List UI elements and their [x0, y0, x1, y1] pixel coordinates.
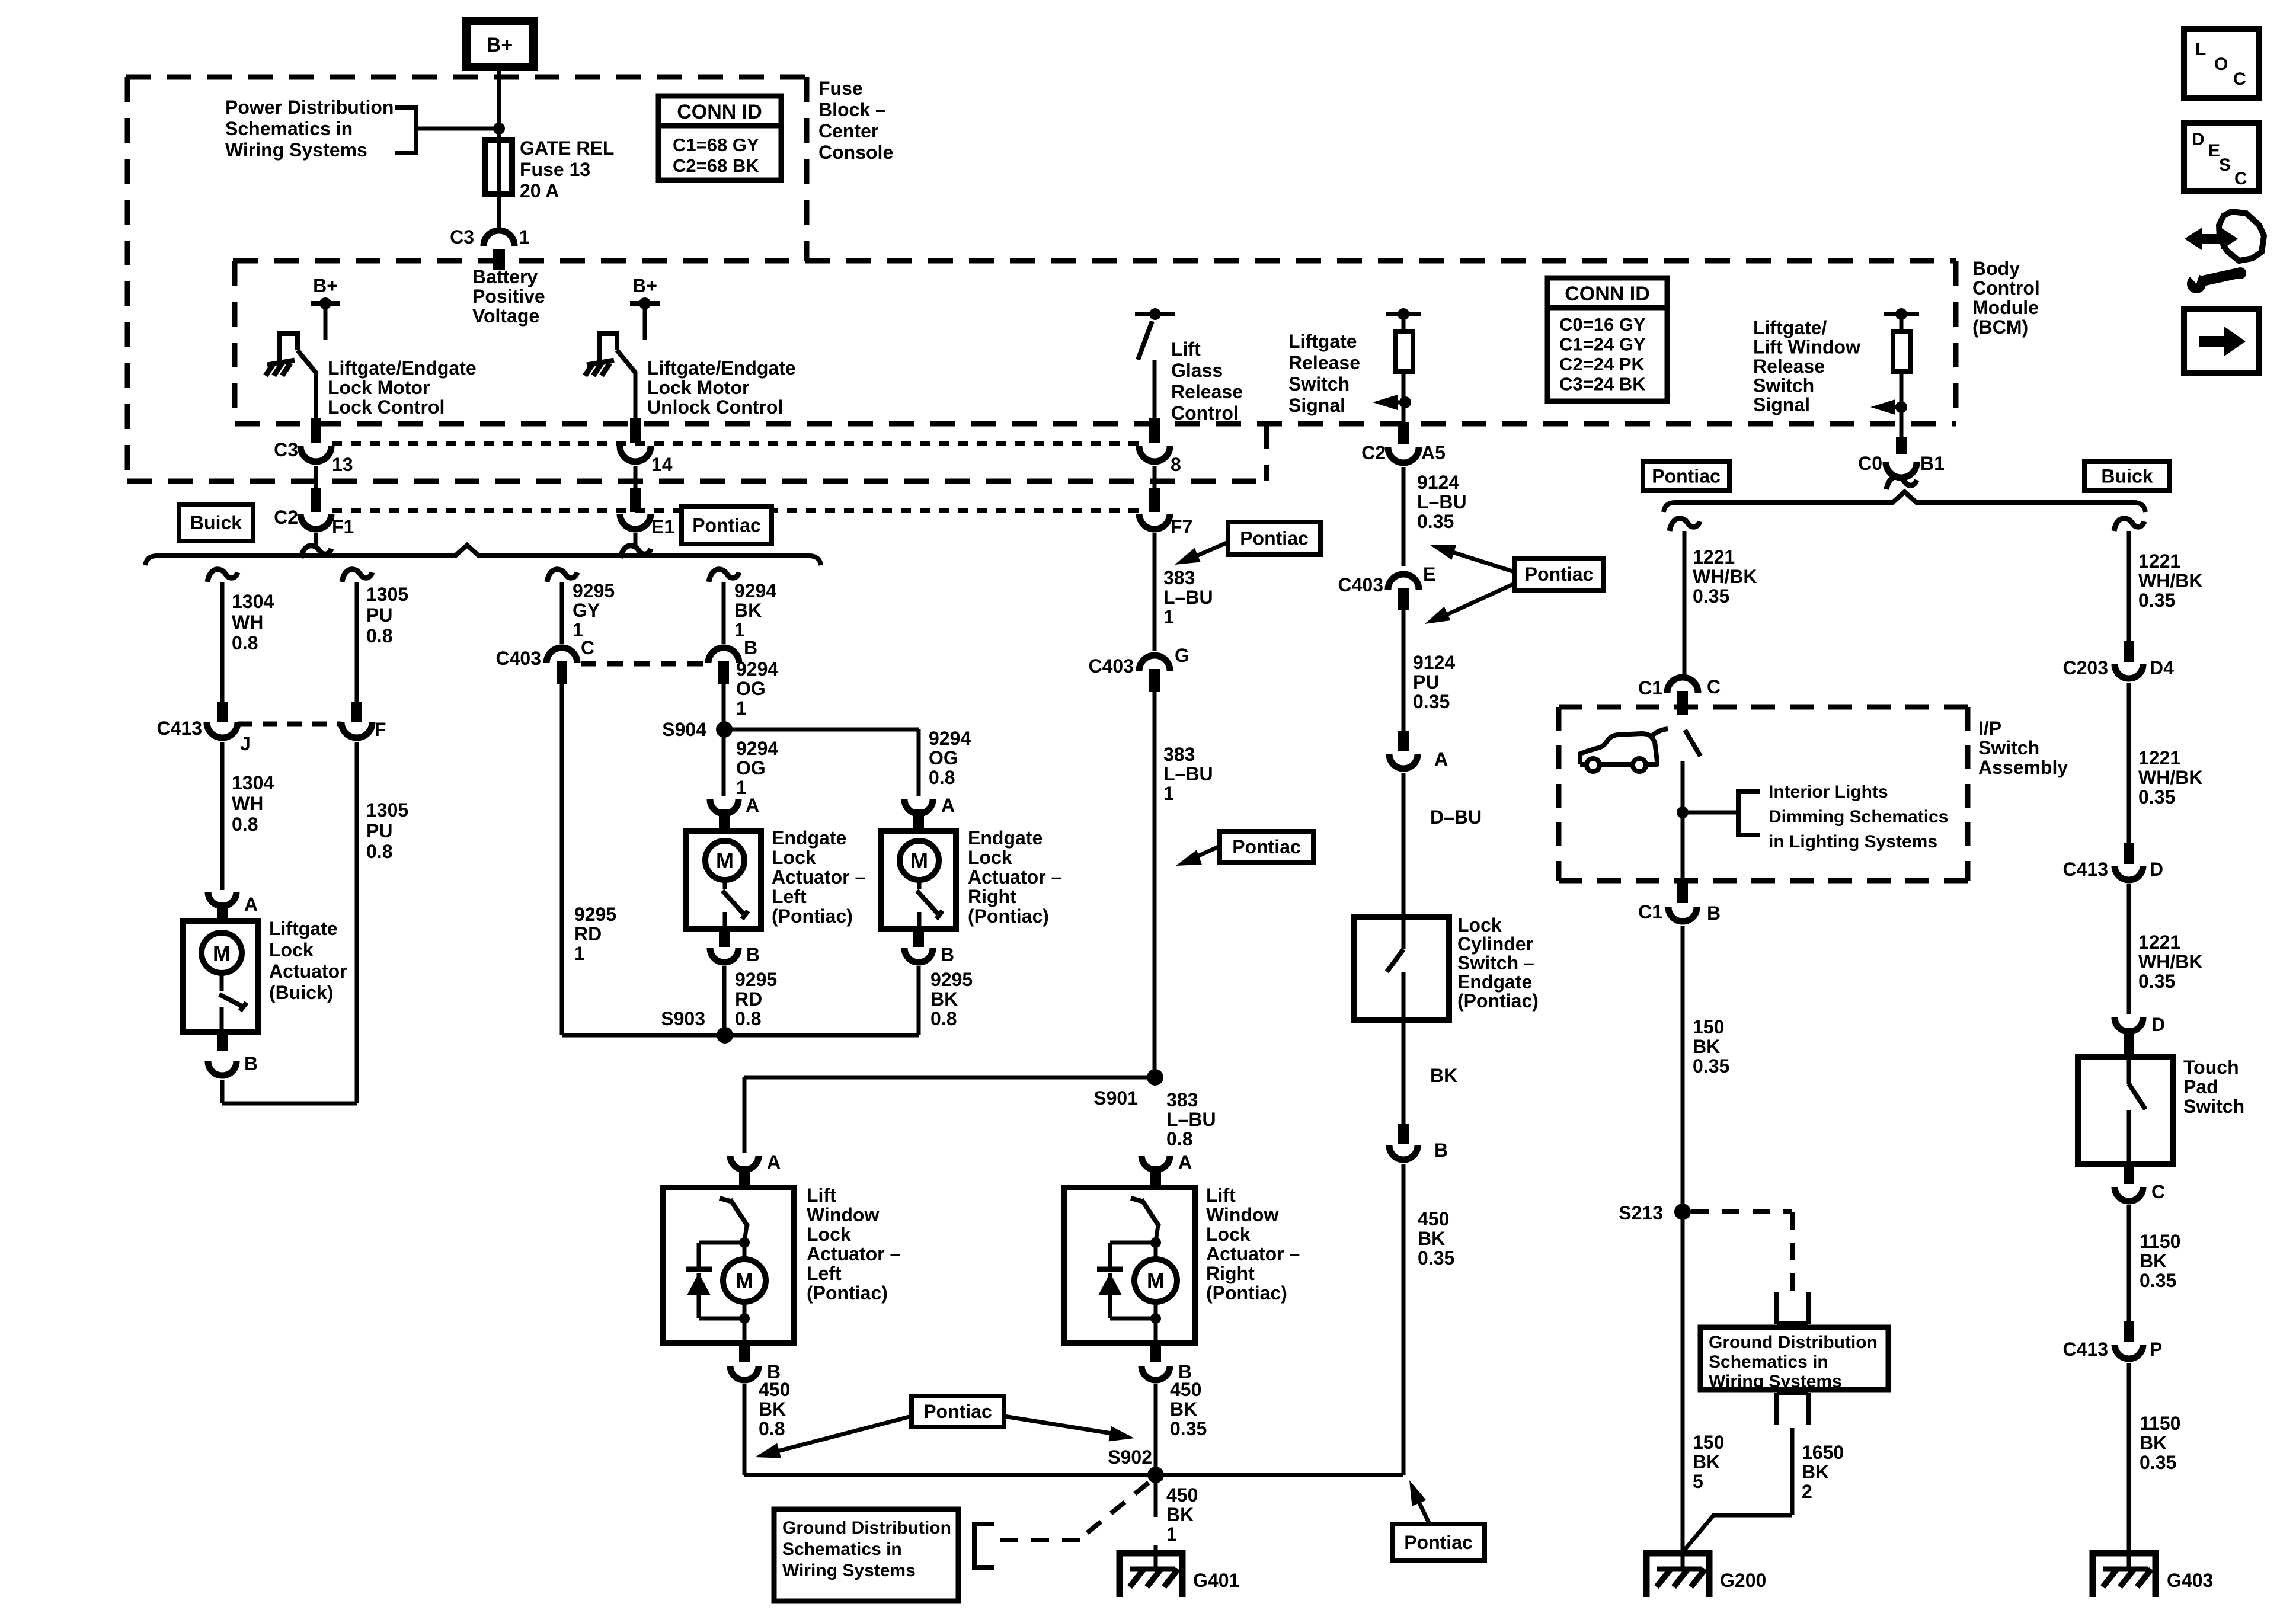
- lock cylinder switch box: [1354, 917, 1449, 1020]
- wire resistor to node: [1402, 372, 1406, 401]
- claw top 1305: [342, 569, 372, 582]
- fuse GATE REL Fuse 13 20 A: [485, 140, 512, 194]
- BCM box top edge: [233, 258, 1956, 264]
- icon double arrow: [2185, 228, 2238, 250]
- bracket ground distribution right bottom: [1777, 1393, 1808, 1425]
- pin C3-1: [493, 249, 505, 270]
- wire 1221 buick upper: [2127, 531, 2131, 646]
- svg-text:E: E: [1423, 564, 1435, 585]
- svg-text:Pontiac: Pontiac: [1404, 1532, 1473, 1553]
- motor hatch symbol unlock control: [587, 360, 614, 365]
- node IP dimming: [1677, 806, 1689, 818]
- pin F: [351, 702, 362, 722]
- svg-text:M: M: [736, 1269, 753, 1293]
- signal arrow lift window release: [1879, 405, 1901, 409]
- svg-text:Pontiac: Pontiac: [1240, 528, 1309, 549]
- connector C3 pin 13 arc: [300, 446, 331, 462]
- BCM box right edge: [1953, 261, 1959, 424]
- svg-text:M: M: [1147, 1269, 1165, 1293]
- pin A5: [1398, 422, 1409, 444]
- ground G401: [1120, 1553, 1182, 1597]
- switch in endgate R: [917, 880, 922, 889]
- wire 1304 lower: [220, 742, 225, 890]
- svg-text:Pontiac: Pontiac: [1232, 836, 1301, 857]
- pin C ip: [1677, 691, 1688, 715]
- pin B lift window actuator left: [739, 1343, 750, 1362]
- svg-text:M: M: [910, 849, 928, 873]
- svg-text:G403: G403: [2167, 1570, 2213, 1591]
- icon LOC box: [2184, 29, 2259, 98]
- endgate lock actuator left box: [686, 831, 761, 929]
- Buick tag left: [179, 504, 253, 541]
- diode lift window actuator right: [1097, 1267, 1123, 1272]
- pin E: [1398, 588, 1409, 610]
- claw top 1304: [207, 569, 238, 582]
- svg-text:B: B: [744, 637, 757, 658]
- node S213: [1674, 1204, 1691, 1220]
- wire P to G403: [2127, 1363, 2131, 1570]
- connector C203 pin D4 arc: [2115, 664, 2143, 678]
- claw under E1: [621, 546, 651, 558]
- node lift window release: [1895, 401, 1907, 413]
- svg-text:CONN ID: CONN ID: [1565, 283, 1650, 305]
- svg-text:D–BU: D–BU: [1430, 806, 1482, 828]
- node top lift window actuator right: [1150, 1237, 1161, 1248]
- svg-text:B+: B+: [487, 34, 513, 56]
- connector C3 pin 1 arc: [484, 231, 514, 246]
- connector C413 pin F arc: [341, 722, 372, 738]
- claw top 9295: [547, 569, 577, 582]
- wire S904 branch right: [724, 728, 919, 732]
- motor M endgate R: [900, 841, 939, 880]
- wire 1650 down: [1790, 1428, 1795, 1515]
- svg-text:C1: C1: [1638, 677, 1662, 699]
- svg-text:B+: B+: [313, 275, 338, 296]
- svg-text:A: A: [767, 1151, 781, 1173]
- wire 1304 upper: [220, 582, 225, 704]
- connector C0 pin B1 arc: [1886, 462, 1917, 478]
- svg-text:C0: C0: [1858, 453, 1882, 474]
- node power junction: [493, 123, 505, 135]
- B+ battery feed box: [466, 21, 533, 67]
- wire 9295 upper: [560, 582, 564, 644]
- diode branch top lift window actuator left: [699, 1241, 744, 1245]
- fuse block box bottom edge: [127, 479, 1267, 484]
- svg-text:8: 8: [1171, 454, 1181, 475]
- pin B buick: [217, 1032, 228, 1051]
- svg-text:14: 14: [651, 454, 673, 475]
- wire S901 left leg down: [743, 1077, 747, 1153]
- IP switch assembly box bottom: [1559, 878, 1968, 884]
- svg-text:S901: S901: [1093, 1087, 1138, 1109]
- connector C403 pin B arc: [708, 648, 739, 663]
- claw top 1221 pontiac: [1670, 518, 1700, 531]
- pin B1: [1896, 437, 1907, 454]
- B+ terminal lock control: [311, 301, 340, 306]
- svg-text:C413: C413: [2063, 1339, 2109, 1360]
- connector C403 pin E arc: [1388, 574, 1419, 590]
- svg-text:Pontiac: Pontiac: [1652, 466, 1721, 487]
- svg-text:C2: C2: [274, 507, 298, 528]
- lift glass release bar: [1135, 312, 1175, 316]
- Pontiac tag S902: [912, 1396, 1004, 1427]
- claw top 9294: [709, 569, 739, 582]
- wire IP node down: [1681, 812, 1685, 881]
- connector C3 pin 8 arc: [1139, 446, 1170, 462]
- connector C2 pin F7 arc: [1139, 514, 1170, 529]
- endgate lock actuator right box: [881, 831, 956, 929]
- wire 1305 lower: [355, 742, 359, 1103]
- node bottom lift window actuator left: [739, 1313, 750, 1324]
- pin G: [1149, 669, 1160, 692]
- icon panel outline: [2219, 212, 2264, 261]
- svg-text:C3: C3: [274, 439, 298, 460]
- brace right harness: [1664, 492, 2145, 512]
- connector liftgate actuator pin A arc: [208, 892, 236, 906]
- svg-text:S903: S903: [661, 1008, 705, 1029]
- svg-text:Buick: Buick: [190, 512, 242, 533]
- connector lift window actuator right pin A arc: [1141, 1156, 1170, 1170]
- svg-text:C413: C413: [2063, 859, 2109, 880]
- svg-text:A5: A5: [1421, 442, 1446, 463]
- svg-text:S: S: [2219, 155, 2231, 175]
- svg-text:BatteryPositiveVoltage: BatteryPositiveVoltage: [472, 266, 545, 327]
- pin D touchpad: [2124, 1028, 2134, 1055]
- pin D4: [2124, 641, 2134, 662]
- wire endgate R B down: [917, 966, 921, 1035]
- fuse block box right edge: [804, 77, 810, 261]
- pin B endgate L: [719, 929, 730, 947]
- switch in lock cylinder: [1402, 917, 1406, 949]
- wire buick loop bottom: [222, 1102, 357, 1106]
- svg-text:C3: C3: [450, 226, 474, 248]
- connector C2 pin E1 arc: [620, 514, 651, 529]
- svg-text:S902: S902: [1108, 1446, 1152, 1468]
- arrow Pontiac bottom right: [1415, 1493, 1430, 1524]
- node S901: [1147, 1069, 1163, 1086]
- pin B endgate R: [913, 929, 924, 947]
- wire junction to power-distribution bracket: [416, 127, 499, 131]
- svg-text:M: M: [213, 941, 231, 965]
- pin 13: [311, 418, 321, 443]
- connector C1 pin C arc: [1667, 677, 1698, 693]
- svg-text:B: B: [1434, 1140, 1448, 1161]
- wire B lift window actuator left down: [743, 1384, 747, 1475]
- svg-text:Pontiac: Pontiac: [1525, 564, 1594, 585]
- icon wrench: [2187, 274, 2206, 293]
- Buick tag BCM right: [2084, 462, 2170, 491]
- pin E1: [630, 488, 641, 512]
- B+ terminal unlock control: [630, 301, 660, 306]
- connector C2 pin A5 arc: [1388, 447, 1419, 463]
- node bottom lift window actuator right: [1150, 1313, 1161, 1324]
- svg-text:Pontiac: Pontiac: [923, 1401, 992, 1422]
- svg-text:D4: D4: [2150, 657, 2174, 678]
- svg-text:D: D: [2151, 1014, 2165, 1035]
- wire E to A: [1402, 610, 1406, 737]
- switch in touchpad: [2127, 1057, 2131, 1084]
- lift window lift window actuator left box: [663, 1188, 794, 1343]
- svg-text:A: A: [1434, 748, 1448, 770]
- diode branch bottom lift window actuator right: [1110, 1317, 1156, 1321]
- switch in lift window actuator left: [720, 1198, 733, 1202]
- fuse block box top edge: [126, 75, 807, 80]
- motor M buick: [202, 933, 242, 973]
- wire bar to resistor: [1402, 314, 1406, 332]
- connector C1 pin B arc: [1668, 907, 1697, 921]
- wire 14 to E1: [634, 466, 638, 488]
- svg-text:A: A: [941, 795, 955, 816]
- claw under F1: [301, 546, 331, 558]
- wire 13 to F1: [314, 466, 318, 488]
- svg-text:B+: B+: [632, 275, 657, 296]
- motor M lift window actuator right: [1154, 1243, 1158, 1260]
- wire F7 to C403 G: [1153, 533, 1157, 651]
- svg-text:B: B: [1707, 902, 1721, 924]
- svg-text:F: F: [375, 719, 386, 740]
- wire F1 tail: [314, 533, 318, 546]
- arrow Pontiac S902 right: [1004, 1416, 1115, 1434]
- arrow Pontiac S902 left: [775, 1416, 912, 1452]
- wire B lift window actuator right down: [1154, 1384, 1158, 1475]
- svg-text:Buick: Buick: [2101, 466, 2153, 487]
- svg-text:C1=68 GYC2=68 BK: C1=68 GYC2=68 BK: [673, 135, 759, 176]
- svg-text:C1: C1: [1638, 901, 1662, 923]
- brace left harness: [145, 545, 821, 565]
- touch pad switch box: [2078, 1057, 2173, 1164]
- wire 9294 upper: [722, 582, 726, 644]
- node liftgate release: [1399, 396, 1411, 408]
- svg-text:B: B: [941, 944, 954, 965]
- wire A5 to C403 E: [1402, 467, 1406, 566]
- pin F1: [311, 488, 321, 512]
- switch in lift window actuator right: [1131, 1198, 1144, 1202]
- liftgate release bar: [1386, 312, 1421, 316]
- Pontiac tag C403 E: [1514, 558, 1604, 590]
- svg-text:F1: F1: [332, 516, 354, 537]
- svg-text:C203: C203: [2063, 657, 2109, 678]
- node S903: [717, 1027, 733, 1044]
- IP switch assembly box left: [1556, 707, 1562, 881]
- svg-text:M: M: [716, 849, 734, 873]
- pin 8: [1149, 418, 1160, 443]
- bracket ground distribution left: [974, 1524, 994, 1567]
- pin B ip: [1677, 881, 1688, 903]
- connector lift window actuator left pin A arc: [730, 1156, 759, 1170]
- svg-text:E1: E1: [651, 516, 674, 537]
- wire endgate L B down: [722, 966, 727, 1035]
- wire S903 row: [562, 1033, 919, 1038]
- car icon: [1580, 734, 1657, 764]
- dotted connector row C3: [332, 441, 1145, 446]
- pin A lock cyl: [1398, 731, 1409, 751]
- lift glass release switch blade: [1138, 321, 1152, 360]
- svg-text:S904: S904: [662, 719, 706, 740]
- wire C1B to S213: [1681, 926, 1685, 1569]
- connector liftgate actuator pin B arc: [208, 1061, 236, 1076]
- bracket power distribution callout: [395, 108, 416, 153]
- claw top 1221 buick: [2114, 518, 2144, 531]
- svg-text:A: A: [1178, 1151, 1192, 1173]
- switch in liftgate actuator: [220, 973, 224, 991]
- arrow Pontiac E down: [1443, 584, 1514, 616]
- pin D c413: [2124, 843, 2134, 864]
- Pontiac tag bottom right: [1392, 1524, 1485, 1561]
- svg-text:G: G: [1175, 645, 1189, 666]
- wire 9295 left leg: [560, 684, 564, 1035]
- wire junction to fuse: [497, 129, 501, 231]
- wire E1 tail: [634, 533, 638, 546]
- svg-text:C: C: [2151, 1181, 2165, 1202]
- wire touchpad C down: [2127, 1205, 2131, 1321]
- svg-text:E: E: [2208, 141, 2220, 161]
- driver switch unlock control: [599, 334, 617, 363]
- svg-text:C403: C403: [1089, 655, 1134, 677]
- connector lock cylinder pin A arc: [1389, 754, 1418, 769]
- Pontiac tag 383 upper: [1220, 831, 1313, 862]
- pin touchpad C: [2124, 1164, 2134, 1184]
- pin A lift window actuator left: [739, 1166, 750, 1187]
- pin B 9294: [718, 661, 729, 684]
- signal arrow liftgate release: [1381, 401, 1405, 405]
- connector C2 pin F1 arc: [300, 514, 331, 529]
- wire S901 row left: [744, 1076, 1155, 1080]
- node top lift window actuator left: [739, 1237, 750, 1248]
- svg-text:J: J: [240, 733, 251, 754]
- motor M endgate L: [705, 841, 744, 880]
- ground G200: [1646, 1553, 1709, 1597]
- svg-text:C403: C403: [1338, 574, 1384, 596]
- svg-text:C: C: [581, 637, 594, 658]
- bracket ground distribution right top: [1777, 1292, 1808, 1324]
- wire B buick down: [220, 1080, 225, 1103]
- svg-text:C0=16 GYC1=24 GYC2=24 PKC3=24: C0=16 GYC1=24 GYC2=24 PKC3=24 BK: [1559, 314, 1646, 395]
- svg-text:13: 13: [332, 454, 353, 475]
- arrow Pontiac F7: [1191, 542, 1228, 558]
- ground distribution box right: [1700, 1327, 1888, 1390]
- wire IP dimming branch: [1683, 811, 1738, 815]
- resistor liftgate release: [1396, 332, 1413, 372]
- bracket interior lights: [1738, 792, 1760, 835]
- wire B+ stub 2: [643, 303, 647, 340]
- node S904: [716, 721, 733, 738]
- pin P c413: [2124, 1321, 2134, 1342]
- wire node to pin A5: [1402, 402, 1406, 422]
- arrow Pontiac E up: [1449, 551, 1514, 572]
- Pontiac tag BCM right: [1643, 462, 1729, 491]
- wire bar to resistor 2: [1900, 314, 1904, 332]
- connector endgate L pin B arc: [710, 948, 738, 962]
- wire 8 to F7: [1153, 466, 1157, 488]
- svg-text:C413: C413: [157, 718, 203, 739]
- lift window release bar: [1884, 312, 1919, 316]
- driver switch lock control: [280, 334, 298, 363]
- svg-text:A: A: [746, 795, 759, 816]
- IP switch assembly box right: [1965, 707, 1971, 881]
- wire 9294 to A left: [722, 729, 726, 796]
- svg-text:F7: F7: [1171, 516, 1192, 537]
- BCM box bottom edge: [235, 421, 1956, 427]
- fuse block box left edge: [125, 77, 130, 481]
- pin 14: [630, 418, 641, 443]
- wire S902 row: [744, 1473, 1403, 1477]
- dashed link C B: [581, 661, 705, 667]
- dashed callout S902: [1080, 1483, 1149, 1539]
- liftgate lock actuator box: [183, 921, 258, 1032]
- svg-text:C: C: [1707, 676, 1721, 697]
- wire lock cylinder to B: [1402, 1020, 1406, 1126]
- svg-text:L: L: [2195, 40, 2206, 59]
- connector touchpad pin D arc: [2115, 1017, 2143, 1032]
- wire B+ to junction: [497, 67, 501, 129]
- connector C413 pin D arc: [2115, 866, 2143, 880]
- connector endgate R pin B arc: [904, 948, 933, 962]
- svg-text:Pontiac: Pontiac: [692, 515, 761, 536]
- resistor lift window release: [1893, 332, 1910, 372]
- svg-text:B1: B1: [1920, 453, 1945, 474]
- diode branch bottom lift window actuator left: [699, 1317, 744, 1321]
- svg-text:S213: S213: [1619, 1202, 1663, 1224]
- wire resistor 2 to node: [1900, 372, 1904, 407]
- connector C403 pin G arc: [1139, 655, 1170, 671]
- wire 1221 pontiac upper: [1683, 531, 1687, 676]
- wire D4 to C413 D: [2127, 683, 2131, 843]
- connector endgate L pin A arc: [710, 799, 738, 814]
- wire S902 to G401: [1154, 1475, 1158, 1517]
- connector C3 pin 14 arc: [620, 446, 651, 462]
- arrow Pontiac 383: [1188, 846, 1220, 860]
- diode lift window actuator left: [686, 1267, 712, 1272]
- connector lock cylinder pin B arc: [1389, 1145, 1418, 1160]
- svg-text:B: B: [244, 1053, 258, 1074]
- switch in IP assembly: [1685, 730, 1700, 756]
- wire 1305 upper: [355, 582, 359, 704]
- CONN ID table BCM: [1547, 278, 1667, 401]
- wire 9294 to S904: [722, 684, 726, 729]
- icon arrow box: [2184, 309, 2259, 373]
- dotted connector row C2: [332, 508, 1145, 513]
- svg-text:D: D: [2150, 859, 2163, 880]
- icon DESC box: [2184, 123, 2259, 191]
- node S902: [1147, 1467, 1164, 1483]
- svg-text:G200: G200: [1720, 1570, 1766, 1591]
- connector lift window actuator right pin B arc: [1141, 1366, 1170, 1380]
- pin A endgate L: [719, 809, 730, 831]
- pin B lock cyl: [1398, 1124, 1409, 1144]
- pin J: [217, 702, 228, 722]
- Pontiac tag F7: [1228, 522, 1320, 555]
- pin A buick: [217, 902, 228, 922]
- svg-text:C: C: [2233, 69, 2246, 89]
- dashed callout S213: [1691, 1209, 1792, 1214]
- pin C: [557, 661, 567, 684]
- claw under B1: [1886, 477, 1917, 489]
- pin A lift window actuator right: [1150, 1166, 1161, 1187]
- CONN ID table fuse block: [658, 96, 781, 180]
- IP switch assembly box top: [1559, 705, 1968, 710]
- connector C413 pin P arc: [2115, 1345, 2143, 1359]
- svg-text:O: O: [2214, 55, 2228, 74]
- wire G to S901: [1153, 692, 1157, 1077]
- motor M lift window actuator left: [743, 1243, 747, 1260]
- svg-text:B: B: [746, 944, 760, 965]
- svg-text:BK: BK: [1430, 1065, 1457, 1086]
- wire C413D to touchpad: [2127, 884, 2131, 1014]
- ground distribution box left: [774, 1509, 958, 1601]
- svg-text:C: C: [2234, 169, 2247, 188]
- svg-text:D: D: [2192, 130, 2205, 149]
- pin A endgate R: [913, 809, 924, 831]
